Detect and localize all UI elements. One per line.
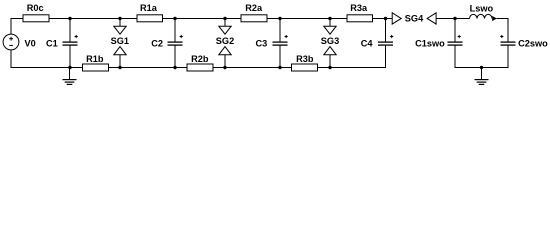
capacitor C4 top lead bbox=[385, 19, 387, 43]
svg-text:R2a: R2a bbox=[245, 3, 263, 13]
capacitor C2 polarity plus bbox=[180, 35, 183, 38]
wire node SG3 bottom to C4 bottom bbox=[330, 45, 386, 67]
V0 minus mark bbox=[9, 44, 13, 46]
junction bottom node C2 bbox=[173, 66, 176, 69]
capacitor C3 plates bbox=[273, 42, 288, 45]
wire node SG3 to R3a bbox=[330, 18, 347, 20]
capacitor C1 top lead bbox=[69, 19, 71, 43]
junction bottom node SG3 bbox=[328, 66, 331, 69]
svg-text:R2b: R2b bbox=[191, 54, 209, 64]
junction top node SG3 bbox=[328, 17, 331, 20]
spark gap SG3 lower triangle bbox=[324, 47, 336, 55]
voltage source V0 bbox=[3, 34, 19, 50]
wire V0 top lead to R0c bbox=[11, 19, 23, 35]
spark gap SG2 bottom stub bbox=[224, 55, 226, 68]
wire node C1 to node SG1 bbox=[70, 18, 120, 20]
junction top node SG1 bbox=[118, 17, 121, 20]
junction bottom node ground bbox=[68, 66, 71, 69]
resistor R2a bbox=[241, 15, 267, 22]
capacitor C4 polarity plus bbox=[390, 35, 393, 38]
svg-text:SG2: SG2 bbox=[216, 36, 234, 46]
junction top node C2 bbox=[173, 17, 176, 20]
wire node C3 bottom to R3b bbox=[280, 67, 292, 69]
spark gap SG3 upper triangle bbox=[324, 26, 336, 34]
wire R1a to node C2 bbox=[163, 18, 176, 20]
resistor R1b bbox=[83, 64, 109, 71]
svg-text:R3b: R3b bbox=[296, 54, 314, 64]
ground left bbox=[63, 68, 77, 85]
wire node C4 to SG4 bbox=[386, 18, 393, 20]
svg-text:C4: C4 bbox=[361, 38, 374, 48]
svg-text:R3a: R3a bbox=[350, 3, 368, 13]
capacitor C2 bottom lead bbox=[174, 45, 176, 67]
spark gap SG1 upper triangle bbox=[114, 26, 126, 34]
resistor R3b bbox=[292, 64, 318, 71]
inductor Lswo bbox=[470, 14, 493, 18]
junction bottom node SG1 bbox=[118, 66, 121, 69]
wire node SG2 to R2a bbox=[225, 18, 241, 20]
spark gap SG2 top stub bbox=[224, 19, 226, 27]
svg-text:SG1: SG1 bbox=[111, 36, 129, 46]
capacitor C1swo plates bbox=[448, 42, 463, 45]
wire V0 bottom lead to ground node bbox=[11, 50, 70, 68]
capacitor C1 polarity plus bbox=[75, 35, 78, 38]
wire node C2 bottom to R2b bbox=[175, 67, 187, 69]
wire R3b to node SG3 bottom bbox=[318, 67, 331, 69]
svg-text:C2swo: C2swo bbox=[518, 38, 548, 48]
wire C1swo bottom to C2swo bottom via right ground bbox=[455, 45, 508, 67]
svg-text:C3: C3 bbox=[255, 38, 267, 48]
resistor R1a bbox=[137, 15, 163, 22]
svg-text:SG4: SG4 bbox=[405, 14, 424, 24]
svg-text:C1swo: C1swo bbox=[415, 38, 445, 48]
junction top node C4 bbox=[384, 17, 387, 20]
wire node SG1 to R1a bbox=[120, 18, 137, 20]
spark gap SG3 bottom stub bbox=[329, 55, 331, 68]
wire R2a to node C3 bbox=[267, 18, 280, 20]
wire node C2 to node SG2 bbox=[175, 18, 225, 20]
wire R0c to node C1 bbox=[49, 18, 70, 20]
wire Lswo to C2swo top bbox=[497, 19, 508, 43]
svg-text:C1: C1 bbox=[46, 38, 58, 48]
spark gap SG1 lower triangle bbox=[114, 47, 126, 55]
spark gap SG2 lower triangle bbox=[219, 47, 231, 55]
capacitor C3 bottom lead bbox=[279, 45, 281, 67]
ground right bbox=[475, 68, 489, 85]
spark gap SG3 top stub bbox=[329, 19, 331, 27]
svg-text:R1a: R1a bbox=[140, 3, 158, 13]
capacitor C1 plates bbox=[63, 42, 78, 45]
capacitor C2swo plates bbox=[501, 42, 516, 45]
resistor R0c bbox=[23, 15, 49, 22]
resistor R3a bbox=[347, 15, 373, 22]
junction top node C3 bbox=[278, 17, 281, 20]
svg-text:R1b: R1b bbox=[86, 54, 104, 64]
junction top node SG2 bbox=[223, 17, 226, 20]
wire R2b to node SG2 bottom bbox=[213, 67, 225, 69]
wire node C3 to node SG3 bbox=[280, 18, 330, 20]
arrowhead after Lswo bbox=[492, 16, 497, 21]
wire R3a to node C4 bbox=[373, 18, 386, 20]
capacitor C1swo top lead bbox=[454, 19, 456, 43]
capacitor C1swo polarity plus bbox=[458, 35, 461, 38]
V0 plus mark bbox=[9, 37, 13, 41]
spark gap SG1 bottom stub bbox=[119, 55, 121, 68]
capacitor C2 plates bbox=[168, 42, 183, 45]
capacitor C1 bottom lead bbox=[69, 45, 71, 67]
wire node SG1 bottom to node C2 bottom bbox=[120, 67, 175, 69]
spark gap SG1 top stub bbox=[119, 19, 121, 27]
svg-text:V0: V0 bbox=[25, 38, 36, 48]
spark gap SG4 left triangle bbox=[392, 13, 401, 24]
wire SG4 to node C1swo bbox=[436, 18, 455, 20]
wire node SG2 bottom to node C3 bottom bbox=[225, 67, 280, 69]
wire node C1swo to Lswo bbox=[455, 18, 470, 20]
junction top node C1swo bbox=[453, 17, 456, 20]
svg-text:Lswo: Lswo bbox=[470, 4, 494, 14]
junction bottom node C3 bbox=[278, 66, 281, 69]
capacitor C2 top lead bbox=[174, 19, 176, 43]
svg-text:SG3: SG3 bbox=[321, 36, 339, 46]
capacitor C3 top lead bbox=[279, 19, 281, 43]
junction bottom node right ground bbox=[480, 66, 483, 69]
spark gap SG2 upper triangle bbox=[219, 26, 231, 34]
junction bottom node SG2 bbox=[223, 66, 226, 69]
wire ground node to R1b bbox=[70, 67, 83, 69]
resistor R2b bbox=[187, 64, 213, 71]
capacitor C2swo polarity plus bbox=[500, 35, 503, 38]
wire R1b to node SG1 bottom bbox=[109, 67, 121, 69]
junction top node C1 bbox=[68, 17, 71, 20]
svg-text:R0c: R0c bbox=[27, 3, 44, 13]
svg-text:C2: C2 bbox=[151, 38, 163, 48]
capacitor C4 plates bbox=[378, 42, 393, 45]
capacitor C3 polarity plus bbox=[285, 35, 288, 38]
spark gap SG4 right triangle bbox=[427, 13, 436, 24]
